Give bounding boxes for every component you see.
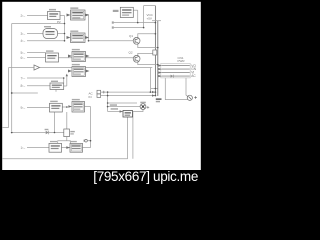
wire CN drop right: [185, 78, 187, 95]
wire rail A vertical: [11, 24, 13, 132]
wire long to Q1 base: [89, 40, 134, 42]
opto U2: [67, 7, 90, 20]
wire row5 input: [27, 57, 46, 59]
wire Q1 emitter: [138, 44, 158, 48]
wire box5 right: [62, 106, 68, 108]
IC U1: [48, 9, 61, 20]
transistor Q2: [133, 55, 140, 62]
opto U6: [68, 49, 90, 62]
label bus bottom: [156, 98, 162, 100]
wire bottom bracket: [58, 141, 71, 144]
regulator U14: [123, 111, 133, 118]
wire W22: [114, 22, 156, 24]
label left of regulator: [110, 104, 117, 106]
bus right line: [157, 21, 159, 97]
wire power vertical V107: [107, 92, 109, 111]
connector J1 plug: [84, 139, 87, 142]
connector pin arrows: [158, 64, 162, 77]
wire drop into box4: [63, 78, 65, 83]
wire pair2 right: [85, 37, 89, 39]
label X2: [140, 102, 146, 104]
wire bus top feed: [144, 5, 156, 7]
opto U7: [68, 64, 90, 77]
IC U13 top-right: [113, 7, 134, 17]
IC U5: [46, 50, 59, 62]
wire R1 bottom: [66, 137, 68, 141]
wire box4 right: [64, 85, 67, 87]
wire plug stub: [87, 140, 91, 142]
IC U3: [43, 26, 58, 39]
CN pin names: [191, 64, 196, 78]
wire row8 from rail: [12, 92, 38, 94]
IC U9: [50, 101, 63, 112]
wire diode row to R1: [12, 132, 46, 134]
diode D1: [45, 129, 49, 135]
svg-text:3›–: 3›–: [21, 32, 26, 36]
wire V137: [137, 10, 139, 22]
wire box5 bottom drop: [54, 112, 56, 133]
wire H158 return: [3, 158, 128, 160]
svg-text:+5V: +5V: [147, 16, 152, 20]
wire powerrow4: [108, 106, 141, 108]
wire bus tick top: [152, 20, 161, 22]
wire row1 input: [27, 15, 48, 17]
wire box4 bottom tick: [55, 90, 57, 92]
svg-text:AC: AC: [191, 74, 196, 78]
opto U12: [66, 141, 82, 152]
wire TRbox right: [133, 9, 137, 11]
wire vertical node V88: [88, 15, 90, 41]
buzzer LS1: [187, 95, 197, 100]
svg-text:8›–: 8›–: [21, 84, 26, 88]
wire row4 input: [27, 52, 46, 54]
wire row9 input: [27, 107, 50, 109]
bus arrows: [152, 91, 155, 97]
svg-text:Q2: Q2: [129, 51, 133, 55]
arrow up A1: [66, 74, 68, 77]
wire box4 up arrow: [66, 75, 68, 86]
wire V127 regulator drop: [127, 117, 129, 159]
wire gate output long: [40, 67, 152, 69]
label W27 tick: [112, 26, 114, 28]
opto U4: [67, 31, 90, 43]
wire V133 drop: [132, 112, 134, 159]
wire right drop V150: [149, 68, 151, 93]
wire powerrow3: [108, 102, 137, 104]
svg-text:9›–: 9›–: [21, 106, 26, 110]
LED X2: [140, 104, 146, 110]
component on bus: [153, 50, 157, 55]
wire powerrow1: [101, 91, 156, 93]
junction dots: [11, 22, 159, 142]
opto U10: [68, 99, 84, 112]
wire row10 input: [27, 147, 49, 149]
svg-text:P2: P2: [57, 20, 61, 24]
svg-text:PWR: PWR: [178, 59, 186, 63]
plus mark X2: [147, 106, 150, 109]
wire CN drop left: [165, 78, 187, 100]
bus left line: [154, 6, 156, 96]
input terminal squares: [97, 90, 101, 97]
resistor R1: [64, 129, 75, 137]
svg-text:2›–: 2›–: [21, 14, 26, 18]
wire V143: [143, 6, 145, 28]
net labels left column: [21, 14, 26, 150]
connector CN1 pins: [162, 66, 190, 77]
arrow into regulator: [120, 110, 123, 113]
wire box2 to vertical: [58, 33, 65, 35]
wire pair1 right: [85, 14, 89, 16]
IC U11: [49, 141, 62, 152]
svg-text:4›–: 4›–: [21, 39, 26, 43]
label AC IN: [89, 91, 94, 98]
connector CN1 frame: [161, 63, 190, 78]
wire row6 input: [27, 77, 64, 79]
page background: [0, 0, 204, 190]
wire regulator right to X2: [133, 110, 143, 112]
wire vertical node V64: [64, 16, 66, 41]
wire W27: [114, 27, 144, 29]
wire gate input: [9, 67, 34, 69]
gate G1: [34, 65, 40, 70]
wire Q1 collector: [138, 34, 156, 38]
plus marks: [102, 91, 105, 94]
wire rail B stub to border: [3, 127, 9, 129]
transistor Q1: [133, 37, 140, 44]
wire row3 input: [27, 40, 65, 42]
svg-text:5›–: 5›–: [21, 51, 26, 55]
wire pair6 right: [83, 147, 91, 149]
svg-text:Q1: Q1: [129, 34, 133, 38]
wire rail B vertical: [8, 68, 10, 128]
wire vertical node V90: [90, 107, 92, 148]
IC U8: [50, 81, 64, 90]
wire powerrow2: [101, 95, 156, 97]
wire bus tick left: [151, 88, 158, 90]
svg-text:7›–: 7›–: [21, 76, 26, 80]
svg-text:[795x667] upic.me: [795x667] upic.me: [93, 169, 198, 184]
wire Q2 emitter: [138, 62, 158, 65]
wire box3 to Q2 base: [59, 57, 134, 59]
wire box6 to pair6: [62, 147, 71, 149]
watermark bar: [0, 170, 204, 190]
label W22 tick: [112, 21, 114, 23]
wire regulator left: [108, 111, 123, 113]
wire box1 to vertical: [60, 15, 65, 17]
wire pair5 bottom drop: [66, 112, 68, 129]
wire Q2 collector: [138, 53, 156, 56]
wire row7 input: [27, 85, 50, 87]
wire row2 input: [27, 33, 43, 35]
svg-text:1›–: 1›–: [21, 146, 26, 150]
wire pair5 right: [85, 106, 91, 108]
svg-text:6›–: 6›–: [21, 56, 26, 60]
wire top horizontal from rail A: [12, 23, 65, 25]
svg-text:IN: IN: [89, 95, 92, 99]
diode D2 on pin4: [171, 75, 174, 78]
